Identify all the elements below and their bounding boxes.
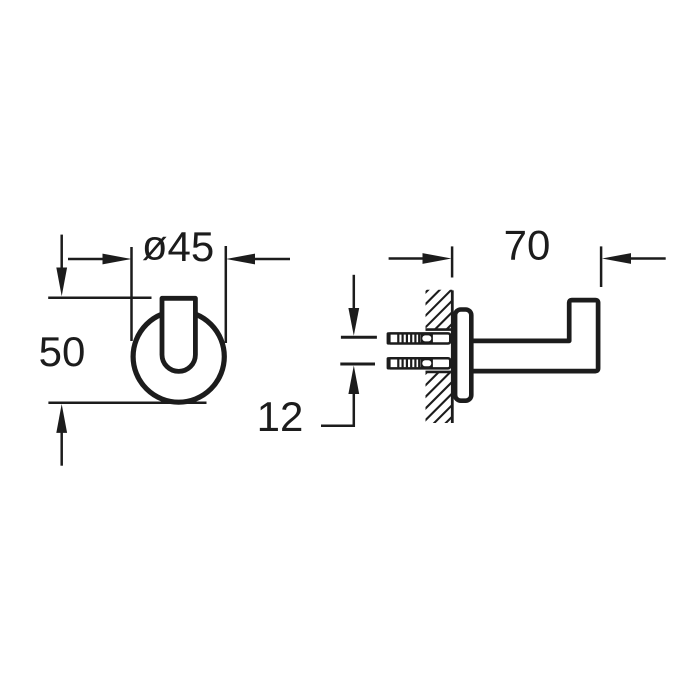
arrowhead 50 top (points down) <box>56 268 67 297</box>
dim line 70 right segment <box>631 257 666 260</box>
extension line 70 left / wall top dash <box>451 246 454 277</box>
arrowhead ø45 right (points left) <box>226 254 255 265</box>
svg-text:70: 70 <box>504 222 551 269</box>
extension line ø45 left <box>130 247 133 341</box>
dimension 12 tick top <box>341 336 377 339</box>
hook arm U-shape (front view) <box>162 298 195 371</box>
wall cutout bottom line <box>426 371 453 374</box>
arrowhead ø45 left (points right) <box>103 254 132 265</box>
arrowhead 70 left (points right) <box>423 253 452 264</box>
screw S2 (lower) <box>387 357 451 369</box>
dim line 70 left segment <box>389 257 423 260</box>
arrowhead 12 bottom (points up) <box>348 366 359 395</box>
extension line 50 bottom <box>48 401 206 404</box>
wall hatching upper band <box>268 270 529 450</box>
wall face line <box>451 290 454 423</box>
wall plate (side view) <box>455 310 471 401</box>
wall cutout top line <box>426 328 453 331</box>
screw S1 (upper) <box>387 332 451 344</box>
svg-text:12: 12 <box>257 393 304 440</box>
svg-text:50: 50 <box>39 328 86 375</box>
svg-text:ø45: ø45 <box>142 222 214 271</box>
arrowhead 12 top (points down) <box>348 308 359 336</box>
extension line 70 right <box>600 246 603 287</box>
arrowhead 70 right (points left) <box>602 253 631 264</box>
extension line 50 top <box>48 296 151 299</box>
dim line 12 top segment <box>353 275 356 309</box>
arrowhead 50 bottom (points up) <box>56 404 67 433</box>
dimension 12 tick bottom <box>340 363 375 366</box>
extension line ø45 right <box>225 246 228 343</box>
wall hatching lower band <box>326 270 599 450</box>
dim line ø45 left segment <box>68 258 104 261</box>
hook arm and tip (side view) <box>470 300 598 371</box>
dim line 12 bottom segment + leader <box>321 394 354 426</box>
hook backplate circle (front view) <box>133 311 224 402</box>
dim line ø45 right segment <box>255 258 290 261</box>
dim line 50 bottom segment <box>60 433 63 466</box>
dim line 50 top segment <box>60 235 63 268</box>
